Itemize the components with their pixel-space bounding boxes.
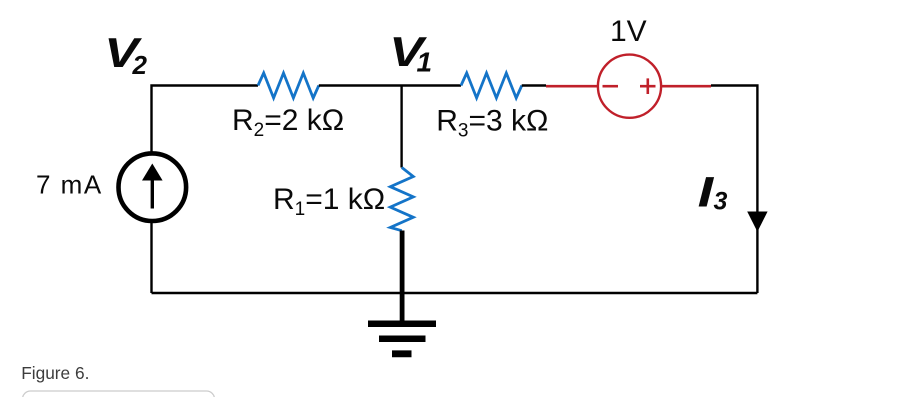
voltage source V=1V circle [598, 55, 661, 118]
wire voltage source right lead (red) [661, 85, 711, 88]
svg-text:Figure 6.: Figure 6. [21, 363, 89, 383]
svg-text:1: 1 [417, 47, 433, 78]
ground bar 2 [379, 336, 426, 343]
bottom wire [152, 292, 758, 295]
svg-text:7 mA: 7 mA [36, 170, 103, 200]
wire voltage source left lead (red) [546, 85, 599, 88]
svg-text:I: I [698, 168, 715, 216]
ground bar 1 [368, 320, 436, 327]
node V2 label [104, 29, 147, 80]
wire R2 to R3 through node V1 [319, 84, 461, 86]
ground stem [400, 231, 405, 321]
wire V1 stem down to R1 [400, 86, 402, 168]
voltage source minus sign [603, 85, 619, 88]
svg-text:R3=3 kΩ: R3=3 kΩ [436, 105, 548, 142]
current source circle 7mA [119, 153, 187, 221]
wire R3 to voltage source (black part) [522, 84, 546, 86]
svg-text:R1=1 kΩ: R1=1 kΩ [273, 183, 385, 220]
svg-text:2: 2 [132, 50, 148, 80]
ground bar 3 [392, 350, 412, 357]
resistor R1 (vertical) [390, 168, 413, 231]
wire top-right corner and right branch down [711, 86, 757, 294]
current source arrow (up) [151, 179, 154, 209]
answer input box (cut off at bottom) [23, 391, 215, 397]
resistor R2 [258, 73, 319, 98]
resistor R3 [461, 73, 522, 98]
I3 label [698, 168, 728, 216]
svg-text:1V: 1V [610, 15, 647, 48]
svg-text:R2=2 kΩ: R2=2 kΩ [232, 104, 344, 141]
svg-text:3: 3 [714, 187, 728, 215]
wire top-left (V2 corner: from current source top up and right to R2) [152, 86, 259, 154]
voltage source plus sign [640, 78, 656, 94]
wire current source bottom to lower-left corner [150, 221, 152, 293]
node V1 label [389, 28, 432, 77]
current I3 arrowhead (down) [747, 212, 767, 232]
